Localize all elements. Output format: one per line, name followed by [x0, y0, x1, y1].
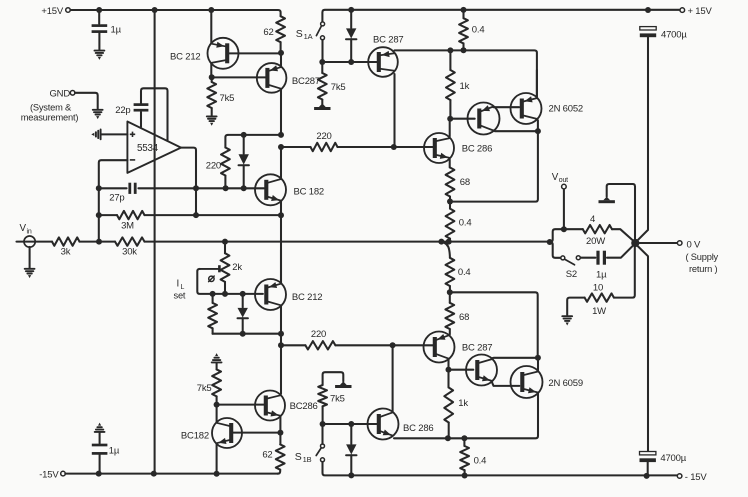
label Supply return: [686, 252, 719, 274]
resistor R (IL sense): [208, 294, 217, 334]
ground (below 7k5 top): [207, 116, 217, 125]
wire BC182 lower base row: [233, 432, 278, 434]
wire Vin ground drop: [29, 247, 31, 268]
svg-text:(System &: (System &: [30, 103, 72, 113]
node junction emitter row/1k: [447, 47, 453, 53]
svg-text:BC 212: BC 212: [292, 292, 323, 303]
svg-text:+15V: +15V: [41, 6, 64, 17]
svg-text:BC 287: BC 287: [462, 343, 493, 354]
capacitor C 4700u (bottom): [640, 452, 687, 476]
svg-text:0.4: 0.4: [458, 267, 471, 278]
wire BC286 mid collector up: [391, 345, 393, 412]
ground pointer (above 7k5 lower left): [212, 353, 222, 362]
node junction collectors: [535, 128, 541, 134]
wire -15V rail right segment: [323, 462, 678, 476]
resistor R 220 (horizontal top): [281, 131, 433, 151]
wire -15V rail left segment: [65, 473, 277, 475]
svg-text:3M: 3M: [121, 221, 134, 232]
capacitor C 4700u (top): [640, 27, 688, 229]
resistor R 0.4 (bottom): [460, 438, 486, 475]
node junction first stage output: [278, 144, 284, 150]
wire 27p feedback row: [99, 187, 264, 189]
resistor R 30k: [115, 237, 145, 257]
wire BC286 lower-left base row: [219, 404, 264, 406]
op-amp minus sign: [130, 159, 135, 161]
svg-text:GND: GND: [49, 88, 70, 99]
capacitor C 1u (bottom left): [92, 433, 120, 474]
wire BC212 collector down: [210, 64, 212, 76]
node junction rail/BC182 emitter: [214, 471, 220, 477]
ground (below Vin): [25, 269, 35, 278]
node junction diode/BC287 base row: [348, 59, 354, 65]
node junction rail/BC212 emitter: [208, 7, 214, 13]
diode D (top left): [239, 135, 249, 188]
label BC 212 (lower): [292, 292, 323, 303]
label BC287 (top): [292, 76, 320, 87]
resistor R 0.4 (lower mid): [446, 258, 471, 293]
svg-text:22p: 22p: [115, 105, 130, 116]
wire 2N6059 collector up: [537, 358, 539, 371]
svg-text:1µ: 1µ: [109, 446, 120, 457]
resistor R 1k (bottom): [444, 370, 468, 439]
node junction 0.4/output bus: [446, 239, 452, 245]
transistor Q BC286 (top driver): [424, 133, 454, 163]
wire darlington emitter-base link: [493, 106, 519, 108]
node junction diode bottom (IL): [240, 331, 246, 337]
svg-text:V: V: [552, 172, 559, 183]
svg-text:4: 4: [590, 214, 595, 225]
svg-text:S2: S2: [566, 269, 577, 280]
node junction S1A/diode row/7k5: [319, 59, 325, 65]
node junction 0.4/emitter row: [461, 435, 467, 441]
svg-text:1k: 1k: [460, 81, 470, 92]
wire collector column to BC286: [280, 334, 282, 394]
svg-text:+ 15V: + 15V: [688, 6, 713, 17]
wire BC286 collector up: [449, 119, 451, 137]
capacitor C 22p: [115, 88, 167, 141]
node junction collector/1k/darlington base: [446, 367, 452, 373]
svg-text:4700µ: 4700µ: [661, 30, 687, 41]
resistor R 62 (bottom): [262, 433, 284, 474]
wire BC212 lower collector down: [280, 306, 282, 334]
wire BC287 emitter up: [280, 53, 282, 67]
label BC 287 (top middle): [373, 34, 404, 45]
wire darlington base row: [450, 118, 475, 120]
transistor Q BC182 (top): [255, 174, 286, 205]
transistor Q BC287 (top): [257, 63, 287, 93]
svg-text:7k5: 7k5: [220, 93, 235, 104]
wire 2N6052 collector to output row: [450, 120, 538, 201]
ground pointer (above 1u bottom): [95, 423, 105, 432]
transistor Q BC182 (lower): [212, 418, 242, 448]
svg-text:27p: 27p: [109, 192, 124, 203]
label (System & measurement): [21, 103, 79, 123]
svg-text:BC286: BC286: [290, 401, 318, 412]
svg-text:BC 287: BC 287: [373, 34, 404, 45]
Vin label: [20, 223, 32, 236]
svg-text:-15V: -15V: [39, 470, 59, 481]
node junction diode top: [241, 132, 247, 138]
node junction S1B/base row: [320, 421, 326, 427]
label BC 182 (top): [294, 187, 325, 198]
svg-text:out: out: [559, 177, 568, 184]
wire fork down to S2 row: [550, 242, 561, 258]
resistor R 62 (top): [263, 16, 285, 53]
svg-text:220: 220: [311, 329, 326, 340]
svg-text:7k5: 7k5: [197, 383, 212, 394]
svg-text:1W: 1W: [592, 306, 606, 317]
resistor R 68 (top): [446, 168, 470, 202]
potentiometer R 2k: [221, 242, 243, 294]
S2 switch: [561, 256, 581, 280]
chassis ground (S1A 7k5): [314, 103, 330, 110]
wire 3k to 30k junction: [80, 241, 116, 243]
node junction 2k/output bus: [222, 239, 228, 245]
resistor R 7k5 (S1B): [318, 372, 345, 424]
transistor Q 2N6052: [511, 93, 542, 124]
resistor R 7k5 (top left): [207, 77, 234, 115]
svg-text:0.4: 0.4: [472, 24, 485, 35]
wiper arm: [197, 265, 219, 294]
svg-text:62: 62: [263, 27, 273, 38]
svg-text:S: S: [296, 28, 303, 40]
S1B switch: [295, 444, 325, 464]
node junction BC212 collector/7k5/BC287 base: [209, 74, 215, 80]
node junction 1k/BC286 collector/darlington base: [447, 116, 453, 122]
wire BC287 lower collector down: [447, 360, 449, 370]
svg-text:7k5: 7k5: [330, 394, 345, 405]
wire 2N6052 emitter up: [536, 70, 538, 97]
wire lower emitter row to 2N6059 collector: [450, 292, 538, 355]
wire 2N6059 emitter down: [394, 394, 538, 439]
wire emitter column to BC212 lower: [280, 215, 282, 283]
transistor Q BC287 (top middle): [368, 47, 398, 77]
svg-text:3k: 3k: [61, 246, 71, 257]
wire BC286 emitter to 68: [449, 160, 451, 168]
wire 3M row to BC182 emitter node: [196, 214, 281, 216]
label BC 212: [170, 52, 201, 63]
svg-text:4700µ: 4700µ: [660, 453, 686, 464]
label IL set: [174, 279, 186, 301]
Vout terminal: [552, 172, 568, 189]
chassis ground (S1B 7k5): [335, 381, 351, 388]
svg-text:62: 62: [262, 449, 272, 460]
transistor Q BC286 (lower left): [255, 391, 285, 421]
svg-text:30k: 30k: [122, 246, 137, 257]
svg-text:20W: 20W: [586, 236, 605, 247]
resistor R 220 (horizontal bottom): [281, 329, 433, 350]
resistor R 68 (bottom): [445, 292, 469, 334]
wire BC287 mid collector down: [393, 74, 395, 147]
label BC 287 (lower): [462, 343, 493, 354]
wire +15V rail right segment: [322, 10, 680, 22]
node junction 7k5/BC286 base/BC182 collector: [214, 402, 220, 408]
svg-text:1k: 1k: [458, 398, 468, 409]
node junction 1k/emitter row: [445, 435, 451, 441]
label BC 286 (bottom middle): [403, 423, 434, 434]
node junction diode/base row: [348, 421, 354, 427]
svg-text:- 15V: - 15V: [685, 472, 708, 483]
Vin source terminal: [17, 236, 53, 247]
capacitor C 1u (S2): [581, 245, 634, 280]
node junction inverting/27p: [96, 185, 102, 191]
op-amp plus sign: [130, 132, 135, 137]
transistor Q BC212 (lower): [255, 279, 286, 310]
svg-text:220: 220: [206, 160, 221, 171]
svg-text:V: V: [20, 223, 27, 234]
wire star SE diagonal down: [636, 245, 648, 452]
+15V terminal (top left): [41, 6, 70, 17]
node junction diode bottom: [241, 185, 247, 191]
node junction output/3M: [193, 212, 199, 218]
resistor R 3k: [52, 237, 80, 257]
wire BC212 lower emitter up: [280, 250, 282, 283]
wire star point top ground branch: [607, 184, 635, 241]
wire BC182 emitter down: [280, 201, 282, 215]
transistor Q 2N6059: [511, 366, 543, 398]
resistor R 3M: [99, 211, 196, 232]
transistor Q (2N6059 input half): [466, 355, 497, 386]
svg-text:220: 220: [316, 131, 331, 142]
transistor Q BC212 (top): [208, 38, 239, 69]
resistor R 10 1W: [567, 282, 614, 317]
-15V terminal (bottom left): [39, 470, 65, 481]
node junction rail/diode bottom: [348, 472, 354, 478]
node junction 68/0.4/output row: [447, 199, 453, 205]
svg-text:0.4: 0.4: [474, 455, 487, 466]
node junction star point: [631, 239, 639, 247]
svg-text:0 V: 0 V: [687, 239, 702, 250]
resistor R 0.4 (top): [459, 10, 484, 50]
resistor R 0.4 (upper mid): [446, 202, 472, 242]
svg-text:S: S: [295, 451, 302, 463]
transistor Q (2N6052 input half): [468, 103, 500, 135]
wire star S to 10 ohm: [614, 245, 635, 298]
svg-text:return ): return ): [689, 264, 717, 274]
svg-text:BC 182: BC 182: [294, 187, 325, 198]
svg-text:1µ: 1µ: [111, 25, 122, 36]
node junction collector/220 row: [278, 342, 284, 348]
node junction rail/1u cap bottom: [96, 471, 102, 477]
node junction 220/BC286 collector column: [390, 342, 396, 348]
wire BC287 collector down: [280, 89, 282, 135]
resistor R 1k (top): [446, 50, 470, 118]
svg-text:( Supply: ( Supply: [686, 252, 719, 262]
label 2N 6052: [549, 103, 584, 114]
svg-text:BC 286: BC 286: [403, 423, 434, 434]
svg-text:BC 286: BC 286: [462, 144, 493, 155]
wire 2N6059 collectors row: [492, 357, 538, 360]
svg-text:1µ: 1µ: [596, 269, 607, 280]
svg-text:2N 6059: 2N 6059: [548, 378, 583, 389]
node junction 0.4/68 lower: [447, 289, 453, 295]
wire BC212 emitter to rail: [210, 10, 212, 43]
node junction wiper/resistor row: [210, 291, 216, 297]
node junction rail/supply bus bottom: [151, 471, 157, 477]
svg-text:set: set: [174, 290, 186, 300]
label BC286 (lower left): [290, 401, 318, 412]
wire BC286 emitter down: [279, 416, 281, 433]
wire BC287 base row: [214, 76, 266, 78]
node junction diode top (IL): [240, 291, 246, 297]
0V terminal: [677, 239, 701, 250]
wire op-amp output: [181, 148, 196, 216]
svg-text:2N 6052: 2N 6052: [549, 103, 584, 114]
wire S1B upper contact up: [321, 424, 323, 444]
transistor Q BC287 (lower driver): [424, 332, 455, 363]
capacitor C 27p: [109, 183, 135, 204]
svg-text:1B: 1B: [303, 455, 312, 464]
diode D (top middle): [346, 10, 356, 62]
wire BC287 mid base row: [324, 61, 376, 63]
wire BC286 mid base row: [325, 423, 377, 425]
wire bias row 134.9: [228, 134, 281, 136]
capacitor C 1u (top left): [92, 10, 122, 49]
node junction rail/0.4 resistor: [461, 7, 467, 13]
wire output bus (30k to output fork): [145, 241, 550, 243]
node junction collector/IL row: [278, 331, 284, 337]
wire BC287 mid emitter row: [395, 50, 537, 96]
wire BC212 base row: [229, 52, 278, 54]
node junction 220 bottom: [223, 185, 229, 191]
diode D (bottom middle): [346, 424, 356, 475]
node junction 3M/BC182 emitter: [278, 212, 284, 218]
node junction jog/output bus: [438, 239, 444, 245]
resistor R 220 (vertical): [206, 135, 230, 188]
wire jog to lower 0.4: [441, 242, 450, 258]
chassis ground (star point): [599, 197, 615, 204]
svg-text:68: 68: [459, 312, 469, 323]
ground (below 1u top): [95, 51, 105, 60]
wire darlington collectors row: [493, 129, 538, 132]
GND terminal: [49, 88, 74, 99]
resistor R 4 20W: [564, 214, 634, 247]
node junction rail/0.4 bottom: [462, 473, 468, 479]
svg-text:BC287: BC287: [292, 76, 320, 87]
+15V terminal (top right): [680, 6, 712, 17]
node junction output fork: [547, 239, 553, 245]
label 5534: [137, 143, 159, 154]
node junction 220/BC287 collector column: [391, 144, 397, 150]
transistor Q BC286 (bottom middle): [368, 409, 399, 440]
wire op-amp inverting input to feedback node: [99, 160, 128, 240]
node junction 220/diode/collector row: [278, 132, 284, 138]
node junction output/27p: [193, 185, 199, 191]
resistor R 7k5 (lower left): [197, 363, 221, 405]
node junction rail/4700u cap bottom: [644, 473, 650, 479]
S1A switch: [296, 22, 325, 41]
svg-text:in: in: [27, 229, 32, 236]
wire op-amp V+/V- supply bus: [154, 10, 156, 474]
wire BC182 lower collector up: [216, 405, 218, 423]
svg-text:2k: 2k: [232, 262, 242, 273]
label BC 286 (top driver): [462, 144, 493, 155]
wiper mark: [209, 276, 215, 282]
label 2N 6059: [548, 378, 583, 389]
svg-text:7k5: 7k5: [331, 82, 346, 93]
node junction 62/BC212 base/BC287 emitter: [278, 50, 284, 56]
wire GND drop: [75, 93, 98, 109]
wire S1A lower contact down: [321, 40, 323, 60]
node junction 3k/30k/inverting: [96, 239, 102, 245]
node junction rail/1u cap: [96, 7, 102, 13]
svg-text:1A: 1A: [304, 32, 313, 41]
resistor R 7k5 (S1A): [318, 62, 346, 104]
wire +15V rail left segment: [70, 10, 280, 16]
svg-text:0.4: 0.4: [459, 217, 472, 228]
svg-text:measurement): measurement): [21, 112, 79, 122]
node junction inverting/3M: [96, 212, 102, 218]
wire darlington lower emitter-base link: [492, 382, 520, 386]
wire star to 0V terminal: [638, 242, 678, 244]
wire op-amp non-inverting input: [101, 133, 127, 135]
wire star NE diagonal to 4700u: [636, 230, 648, 242]
label BC182 (lower): [181, 430, 209, 441]
svg-text:68: 68: [460, 177, 470, 188]
node junction 2N6059 collectors: [535, 355, 541, 361]
svg-text:BC 212: BC 212: [170, 52, 201, 63]
wire IL lower row: [213, 333, 281, 335]
-15V terminal (bottom right): [677, 472, 707, 483]
wire BC182 lower emitter down: [216, 444, 218, 474]
ground pointer (op-amp + input): [91, 130, 100, 140]
op-amp U1 5534 triangle: [127, 122, 181, 173]
node junction rail/4700u cap: [645, 7, 651, 13]
node junction Vout: [561, 226, 567, 232]
wire IL row to BC212 base: [213, 293, 263, 295]
svg-text:I: I: [177, 279, 180, 290]
ground (GND arrow): [93, 110, 103, 119]
node junction rail/diode: [348, 7, 354, 13]
wire fork up to Vout row: [550, 229, 562, 242]
node junction emitter row/0.4: [461, 47, 467, 53]
wire Vout drop: [563, 189, 565, 229]
node junction rail/op-amp supply bus: [152, 7, 158, 13]
node junction BC286 emitter/62/BC182 base: [277, 430, 283, 436]
wire BC182 collector up: [280, 147, 282, 179]
diode D (IL): [238, 294, 248, 334]
ground (10 ohm): [562, 316, 572, 325]
node junction 2k bottom: [222, 291, 228, 297]
wire darlington lower base row: [449, 369, 474, 371]
svg-text:BC182: BC182: [181, 430, 209, 441]
svg-text:10: 10: [593, 282, 603, 293]
